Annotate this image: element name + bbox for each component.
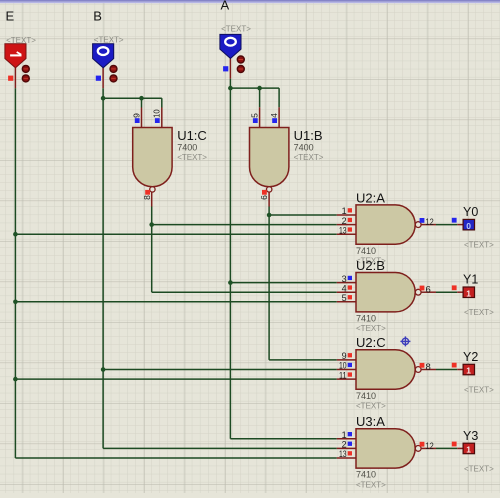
wire Y1 net — [436, 291, 457, 293]
svg-text:7410: 7410 — [356, 246, 376, 256]
U3:A pin 1 state square — [348, 432, 352, 436]
svg-text:<TEXT>: <TEXT> — [356, 324, 386, 333]
U1:C pin 9 state square (blue) — [135, 118, 140, 123]
pin U1:B 4 stub — [278, 107, 280, 128]
svg-text:13: 13 — [339, 225, 347, 235]
svg-text:<TEXT>: <TEXT> — [177, 153, 207, 162]
svg-text:8: 8 — [142, 195, 152, 200]
wire B net vertical — [102, 88, 104, 448]
origin crosshair marker — [400, 336, 410, 346]
wire A pin stub (maroon) — [229, 58, 231, 78]
svg-text:10: 10 — [339, 361, 347, 371]
svg-text:U2:B: U2:B — [356, 258, 385, 273]
svg-text:6: 6 — [426, 285, 431, 296]
wire B to U1:C inputs — [103, 97, 162, 99]
top window bar — [0, 0, 500, 2]
svg-text:7410: 7410 — [356, 314, 376, 324]
E toggle button lower — [22, 75, 29, 82]
NAND gate U2:C 7410 body — [356, 350, 415, 389]
E pin state square — [8, 76, 13, 81]
junction E / U2:A pin13 row — [13, 232, 18, 237]
wire drop to U1:B pin 4 — [278, 88, 280, 107]
probe Y3 pin state square — [452, 442, 457, 447]
wire E to U2:C pin 11 — [15, 378, 336, 380]
A toggle button upper — [237, 56, 244, 63]
U2:A output bubble — [415, 222, 421, 228]
svg-text:5: 5 — [342, 293, 347, 303]
pin U1:B 5 stub — [259, 107, 261, 128]
U2:B pin 4 state square — [348, 285, 352, 289]
pin U1:C 8 stub (maroon) — [151, 192, 153, 207]
svg-text:1: 1 — [466, 445, 471, 455]
U1:B output bubble — [267, 187, 272, 192]
svg-text:11: 11 — [339, 370, 347, 380]
pin U1:C 10 stub — [161, 108, 163, 128]
svg-text:<TEXT>: <TEXT> — [221, 24, 251, 33]
pin U2:C 10 stub — [337, 369, 356, 371]
pin U2:C 9 stub — [337, 359, 356, 361]
pin probe Y0 stub — [457, 224, 463, 226]
svg-text:10: 10 — [152, 109, 162, 118]
svg-text:7400: 7400 — [294, 142, 314, 152]
junction B / pin9 drop — [139, 96, 144, 101]
svg-text:0: 0 — [466, 221, 471, 231]
pin U2:A 13 stub — [337, 233, 356, 235]
svg-text:U1:B: U1:B — [294, 128, 323, 143]
U1:C pin 10 state square (blue) — [155, 118, 160, 123]
svg-text:2: 2 — [342, 440, 347, 450]
svg-text:Y2: Y2 — [463, 350, 478, 364]
U1:C pin 8 state square (red) — [145, 190, 150, 195]
svg-text:1: 1 — [342, 206, 347, 216]
wire drop to U1:B pin 5 — [259, 88, 261, 107]
pin U2:A 1 stub — [337, 214, 356, 216]
svg-text:E: E — [6, 9, 15, 24]
U2:C output bubble — [415, 367, 421, 373]
NAND gate U1:B 7400 body — [250, 128, 289, 187]
wire B pin stub (maroon) — [102, 68, 104, 88]
logic probe Y1 — [463, 287, 474, 298]
B digit 0 (rotated) — [98, 47, 109, 55]
wire B to U2:C pin 10 — [103, 369, 337, 371]
B pin state square — [96, 76, 101, 81]
svg-text:8: 8 — [426, 362, 431, 373]
pin U2:B 5 stub — [337, 301, 356, 303]
U3:A pin 2 state square — [348, 442, 352, 446]
B toggle button upper — [110, 65, 117, 72]
svg-text:7410: 7410 — [356, 470, 376, 480]
svg-text:9: 9 — [132, 113, 142, 118]
A toggle button lower — [237, 66, 244, 73]
pin U2:B 4 stub — [337, 291, 356, 293]
probe Y2 pin state square — [452, 363, 457, 368]
U2:C pin 10 state square — [348, 363, 352, 367]
svg-text:<TEXT>: <TEXT> — [464, 308, 494, 317]
pin U2:A 2 stub — [337, 224, 356, 226]
U2:A pin 12 state square — [420, 218, 425, 223]
pin U3:A 2 stub — [337, 447, 356, 449]
U2:B output bubble — [415, 289, 421, 295]
svg-text:7400: 7400 — [177, 142, 197, 152]
pin U1:B 6 stub (maroon) — [268, 192, 270, 207]
wire Y2 net — [436, 369, 457, 371]
wire A to U3:A pin 1 — [230, 438, 336, 440]
probe Y0 pin state square — [452, 218, 457, 223]
B toggle button lower — [110, 75, 117, 82]
NAND gate U1:C 7400 body — [133, 128, 172, 187]
svg-text:2: 2 — [342, 216, 347, 226]
U2:A pin 1 state square — [348, 208, 352, 212]
svg-text:1: 1 — [466, 288, 471, 298]
wire E to U2:A pin 13 — [15, 233, 336, 235]
U2:B pin 6 state square — [420, 286, 425, 291]
U2:C pin 8 state square — [420, 363, 425, 368]
svg-text:<TEXT>: <TEXT> — [294, 153, 324, 162]
U1:B pin 6 state square (red) — [262, 190, 267, 195]
wire E to U2:B pin 5 — [15, 301, 336, 303]
logic probe Y0 — [463, 219, 474, 230]
wire NOT-A to U2:C pin 9 — [269, 359, 337, 361]
wire drop to U1:C pin 9 — [141, 98, 143, 107]
E digit 1 (rotated) — [10, 54, 21, 56]
pin U2:A 12 stub — [421, 224, 436, 226]
svg-text:<TEXT>: <TEXT> — [356, 480, 386, 489]
junction NOT-A / U2:A pin1 row — [267, 213, 272, 218]
svg-text:4: 4 — [342, 283, 347, 293]
pin U2:B 6 stub — [421, 291, 436, 293]
wire E pin stub (maroon) — [14, 68, 16, 89]
svg-text:1: 1 — [342, 430, 347, 440]
wire A net vertical — [229, 79, 231, 439]
svg-text:Y3: Y3 — [463, 429, 478, 443]
svg-text:U2:A: U2:A — [356, 190, 385, 205]
U2:A pin 2 state square — [348, 218, 352, 222]
U3:A output bubble — [415, 446, 421, 452]
svg-text:<TEXT>: <TEXT> — [464, 241, 494, 250]
wire drop to U1:C pin 10 — [161, 98, 163, 107]
junction E / U2:B pin5 row — [13, 300, 18, 305]
pin U2:C 11 stub — [337, 378, 356, 380]
svg-text:13: 13 — [339, 449, 347, 459]
pin probe Y2 stub — [457, 369, 463, 371]
U2:C pin 11 state square — [348, 372, 352, 376]
svg-text:<TEXT>: <TEXT> — [356, 401, 386, 410]
A pin state square — [223, 66, 228, 71]
wire A to U1:B inputs — [230, 87, 279, 89]
junction A / pin5 drop — [257, 86, 262, 91]
wire NOT-A net vertical — [268, 207, 270, 360]
wire NOT-A to U2:A pin 1 — [269, 214, 337, 216]
svg-text:9: 9 — [342, 351, 347, 361]
svg-text:4: 4 — [269, 113, 279, 118]
logic probe Y2 — [463, 364, 474, 375]
pin U1:C 9 stub — [141, 108, 143, 128]
U2:A pin 13 state square — [348, 227, 352, 231]
wire E net vertical — [14, 88, 16, 458]
svg-text:B: B — [93, 9, 102, 24]
NAND gate U2:A 7410 body — [356, 205, 415, 244]
wire NOT-B to U2:A pin 2 — [152, 224, 337, 226]
pin probe Y1 stub — [457, 291, 463, 293]
U2:B pin 3 state square — [348, 276, 352, 280]
svg-text:7410: 7410 — [356, 391, 376, 401]
pin U3:A 13 stub — [337, 457, 356, 459]
U3:A pin 13 state square — [348, 451, 352, 455]
junction E / U2:C pin11 row — [13, 377, 18, 382]
logic state input B — [93, 44, 114, 68]
wire NOT-B net vertical — [151, 207, 153, 293]
A digit 0 (rotated) — [225, 38, 236, 46]
svg-text:U1:C: U1:C — [177, 128, 207, 143]
svg-text:1: 1 — [466, 366, 471, 376]
svg-text:<TEXT>: <TEXT> — [464, 464, 494, 473]
wire Y3 net — [436, 447, 457, 449]
junction B top — [101, 96, 106, 101]
U1:C output bubble — [150, 187, 155, 192]
U3:A pin 12 state square — [420, 442, 425, 447]
pin probe Y3 stub — [457, 447, 463, 449]
svg-text:<TEXT>: <TEXT> — [94, 36, 124, 45]
wire NOT-B to U2:B pin 4 — [152, 291, 337, 293]
logic probe Y3 — [463, 443, 474, 454]
svg-text:<TEXT>: <TEXT> — [6, 36, 36, 45]
wire B to U3:A pin 2 — [103, 447, 337, 449]
svg-text:12: 12 — [426, 217, 434, 228]
svg-text:5: 5 — [250, 113, 260, 118]
svg-text:Y0: Y0 — [463, 205, 478, 219]
junction A / U2:B pin3 row — [228, 280, 233, 285]
svg-text:A: A — [221, 0, 230, 13]
NAND gate U3:A 7410 body — [356, 429, 415, 468]
svg-text:Y1: Y1 — [463, 273, 478, 287]
pin U2:C 8 stub — [421, 369, 436, 371]
probe Y1 pin state square — [452, 285, 457, 290]
logic state input A — [220, 34, 241, 58]
wire Y0 net — [436, 224, 457, 226]
svg-text:3: 3 — [342, 274, 347, 284]
U2:B pin 5 state square — [348, 295, 352, 299]
wire E to U3:A pin 13 — [15, 457, 336, 459]
NAND gate U2:B 7410 body — [356, 273, 415, 312]
U2:C pin 9 state square — [348, 353, 352, 357]
junction NOT-B / U2:A pin2 row — [149, 222, 154, 227]
svg-text:<TEXT>: <TEXT> — [464, 386, 494, 395]
svg-text:12: 12 — [426, 441, 434, 452]
pin U2:B 3 stub — [337, 282, 356, 284]
svg-text:U2:C: U2:C — [356, 335, 386, 350]
logic state input E — [5, 44, 26, 68]
U1:B pin 5 state square (blue) — [253, 118, 258, 123]
svg-text:6: 6 — [259, 195, 269, 200]
pin U3:A 1 stub — [337, 438, 356, 440]
junction A top — [228, 86, 233, 91]
pin U3:A 12 stub — [421, 447, 436, 449]
U1:B pin 4 state square (blue) — [272, 118, 277, 123]
wire A to U2:B pin 3 — [230, 282, 336, 284]
junction B / U2:C pin10 row — [101, 367, 106, 372]
svg-text:U3:A: U3:A — [356, 414, 385, 429]
E toggle button upper — [22, 65, 29, 72]
